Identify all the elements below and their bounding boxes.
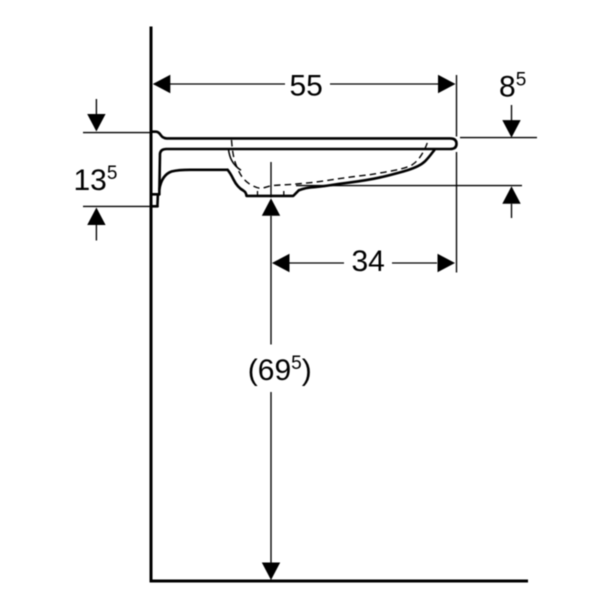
- svg-text:34: 34: [352, 245, 385, 278]
- dimension 69.5: lower shaft: [270, 392, 272, 563]
- drain hole left tick: [257, 191, 259, 196]
- bowl underside swoosh: [299, 150, 435, 191]
- dimension 69.5: upper shaft: [270, 216, 272, 345]
- dimension 8.5: top extension line: [460, 137, 537, 139]
- dimension 55: left arrow: [153, 75, 171, 93]
- mounting tab: [153, 194, 158, 206]
- mounting step: [153, 193, 160, 196]
- dimension 8.5: lower extension line: [296, 185, 522, 187]
- dimension 34: left arrow: [272, 254, 290, 272]
- underside curve from bracket: [159, 170, 227, 190]
- svg-text:55: 55: [290, 70, 323, 103]
- bowl section dashed line: [232, 140, 429, 188]
- svg-text:(695): (695): [248, 353, 312, 387]
- dimension 8.5: down arrow: [511, 105, 513, 121]
- dimension 55: right arrow: [438, 75, 456, 93]
- dimension 8.5: up arrow: [502, 186, 520, 204]
- drain hole right tick: [283, 191, 285, 196]
- dimension 69.5: up arrow under boss: [262, 198, 280, 216]
- dimension 13.5: top extension line: [83, 132, 150, 134]
- dimension 13.5: bottom extension line: [83, 205, 151, 207]
- dimension 69.5: down arrow at floor: [262, 563, 280, 581]
- drain boss left and bottom: [228, 170, 299, 196]
- floor: [150, 580, 528, 583]
- dimension 55: line: [154, 83, 438, 85]
- dimension 34: line: [273, 262, 437, 264]
- dimension 13.5: up arrow: [87, 208, 105, 226]
- dimension 13.5: down arrow: [95, 99, 97, 114]
- bowl inner front edge (thin solid): [229, 150, 242, 171]
- basin slab and wall lip outline: [153, 132, 457, 207]
- drain centerline through boss: [270, 162, 272, 198]
- wall: [150, 27, 153, 583]
- dimension 34: right arrow: [438, 254, 456, 272]
- extension line right (x=456.5): [456, 75, 458, 273]
